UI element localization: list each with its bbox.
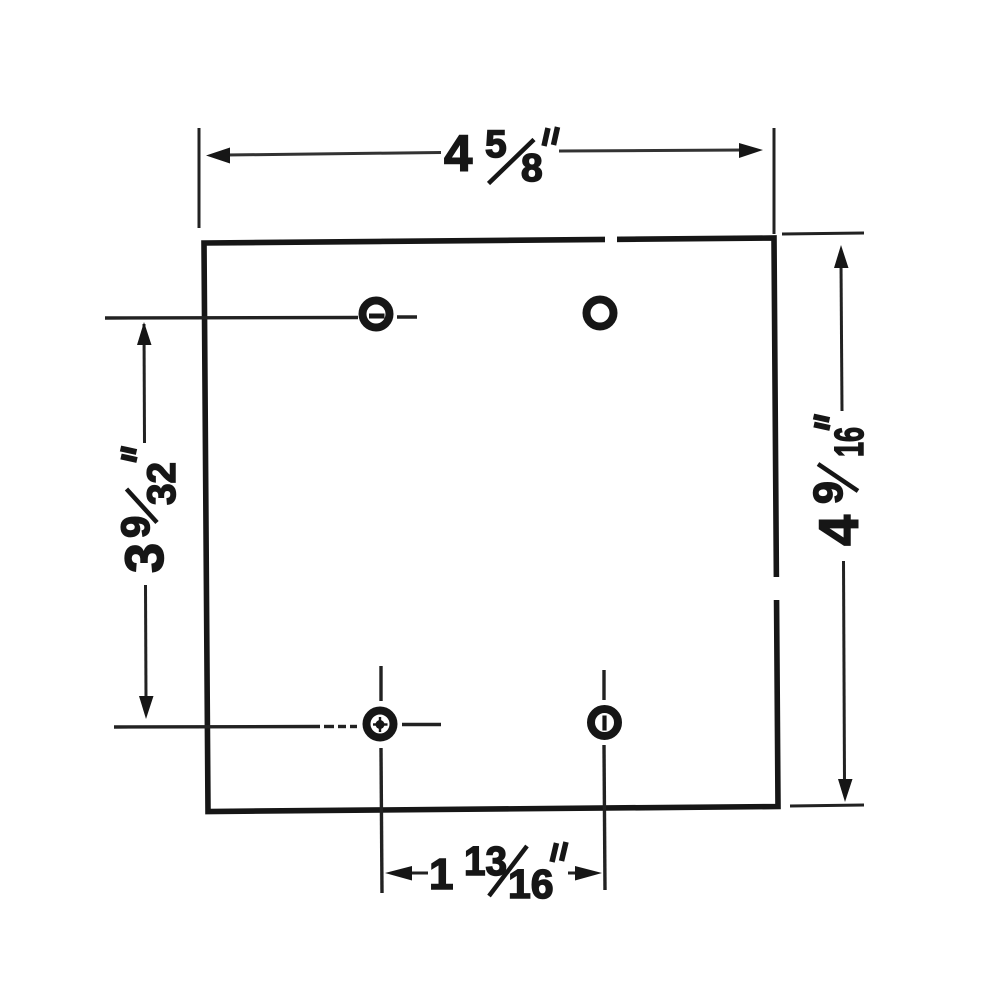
left dimension top arrowhead xyxy=(137,322,152,345)
right dimension line lower segment xyxy=(844,561,845,782)
centerline below bottom-right hole / bottom dim extension right xyxy=(604,745,605,890)
top-left hole xyxy=(363,301,390,328)
bottom-right hole xyxy=(591,709,618,736)
svg-text:9: 9 xyxy=(805,481,851,504)
top dimension extension line right xyxy=(773,128,776,234)
top dimension text 4 5/8 inch xyxy=(444,123,558,190)
svg-text:1: 1 xyxy=(429,850,453,899)
svg-text:3: 3 xyxy=(115,543,175,573)
bottom dimension left arrowhead xyxy=(385,866,412,881)
bottom-right hole center tick xyxy=(602,716,606,731)
top dimension line right segment xyxy=(559,150,744,151)
left dimension text 3 9/32 inch (rotated) xyxy=(114,449,184,574)
svg-text:16: 16 xyxy=(508,861,554,907)
centerline dash right of top-left hole xyxy=(397,315,417,318)
scan gap in plate right edge xyxy=(769,577,783,600)
svg-text:5: 5 xyxy=(485,123,507,166)
bottom-left hole xyxy=(367,711,394,738)
plate outline (cover plate body) xyxy=(204,238,778,812)
top-right hole xyxy=(587,300,614,327)
centerline stub above bottom-left hole xyxy=(379,666,382,701)
left dimension line lower segment xyxy=(144,585,148,700)
right dimension text 4 9/16 inch (rotated) xyxy=(805,417,872,547)
scan gap in plate top edge xyxy=(605,232,617,244)
right dimension line upper segment xyxy=(841,262,842,411)
left dimension bottom arrowhead xyxy=(139,696,154,719)
centerline stub above bottom-right hole xyxy=(602,670,605,700)
top dimension left arrowhead xyxy=(206,148,230,164)
bottom dimension text 1 13/16 inch xyxy=(429,838,566,907)
centerline dash right of bottom-left hole xyxy=(402,723,441,726)
left dimension: centerline at bottom-left hole level xyxy=(114,725,357,729)
svg-text:4: 4 xyxy=(807,515,870,546)
top dimension right arrowhead xyxy=(739,143,763,158)
svg-text:8: 8 xyxy=(521,147,543,190)
right dimension bottom arrowhead xyxy=(838,779,853,802)
left dimension line upper segment xyxy=(143,324,147,443)
top dimension line left segment xyxy=(226,153,441,156)
left dimension: centerline through top-left hole xyxy=(105,316,358,320)
top-left hole center dash xyxy=(369,314,385,319)
right dimension extension tick top xyxy=(782,233,864,234)
bottom dimension right arrowhead xyxy=(575,866,602,881)
svg-text:16: 16 xyxy=(826,427,872,457)
bottom-left hole center mark xyxy=(373,717,388,732)
bottom dimension line left segment xyxy=(410,872,428,875)
bottom dimension line right segment xyxy=(568,872,578,875)
centerline below bottom-left hole / bottom dim extension left xyxy=(381,748,382,893)
top dimension extension line left xyxy=(198,128,201,228)
svg-text:32: 32 xyxy=(140,462,184,505)
right dimension top arrowhead xyxy=(834,245,849,268)
right dimension extension tick bottom xyxy=(790,805,864,806)
svg-text:4: 4 xyxy=(444,125,473,182)
